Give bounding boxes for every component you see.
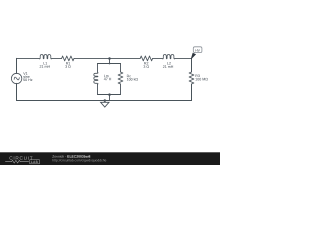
wire right rail lower: [191, 84, 193, 100]
inductor L2: [162, 55, 175, 60]
watermark logo LAB box: [30, 160, 40, 164]
svg-text:100 MΩ: 100 MΩ: [195, 77, 208, 81]
svg-text:http://circuitlab.com/c/gwdxqu: http://circuitlab.com/c/gwdxquoddch6: [52, 158, 106, 162]
svg-text:21 mH: 21 mH: [40, 65, 51, 69]
watermark bar: [0, 152, 220, 165]
svg-text:21 mH: 21 mH: [163, 65, 174, 69]
node junction dot top: [108, 57, 111, 60]
node flag HV bubble: [193, 47, 202, 53]
node junction dot box top: [109, 63, 111, 65]
wire box left rail upper: [97, 64, 99, 73]
wire R1 to R2: [74, 57, 140, 59]
wire box right rail lower: [120, 84, 122, 95]
node junction dot box bottom: [108, 93, 111, 96]
resistor R1: [62, 56, 74, 61]
node junction dot ground: [104, 99, 107, 102]
resistor R3: [189, 72, 194, 84]
svg-text:3 Ω: 3 Ω: [143, 65, 149, 69]
wire left rail lower: [16, 83, 18, 100]
wire box bottom rail: [98, 94, 121, 96]
resistor Rc: [118, 72, 123, 84]
svg-text:LAB: LAB: [31, 160, 38, 164]
wire stub top to magnetizing branch: [109, 58, 111, 63]
svg-text:HV: HV: [195, 49, 200, 53]
V1 sine symbol: [14, 76, 20, 80]
wire box top rail: [98, 63, 121, 65]
voltage source V1 circle: [11, 73, 21, 83]
wire left rail upper: [16, 58, 18, 73]
ground: [101, 100, 109, 107]
wire top-left segment: [17, 57, 40, 59]
wire L2 to right corner: [175, 57, 192, 59]
wire right rail upper: [191, 58, 193, 72]
node flag HV tail: [191, 53, 195, 59]
wire L1 to R1: [52, 57, 62, 59]
wire R2 to L2: [153, 57, 163, 59]
wire box left rail lower: [97, 84, 99, 94]
wire bottom: [17, 99, 192, 101]
svg-text:47 H: 47 H: [104, 77, 112, 81]
svg-text:3 Ω: 3 Ω: [65, 65, 71, 69]
svg-text:100 kΩ: 100 kΩ: [127, 78, 139, 82]
wire box right rail upper: [120, 64, 122, 73]
resistor R2: [140, 56, 152, 61]
inductor Lm: [94, 72, 98, 84]
svg-text:50 Hz: 50 Hz: [23, 78, 33, 82]
watermark logo resistor zigzag: [5, 160, 29, 163]
inductor L1: [39, 55, 52, 60]
wire stub bottom to ground wire: [109, 95, 111, 101]
